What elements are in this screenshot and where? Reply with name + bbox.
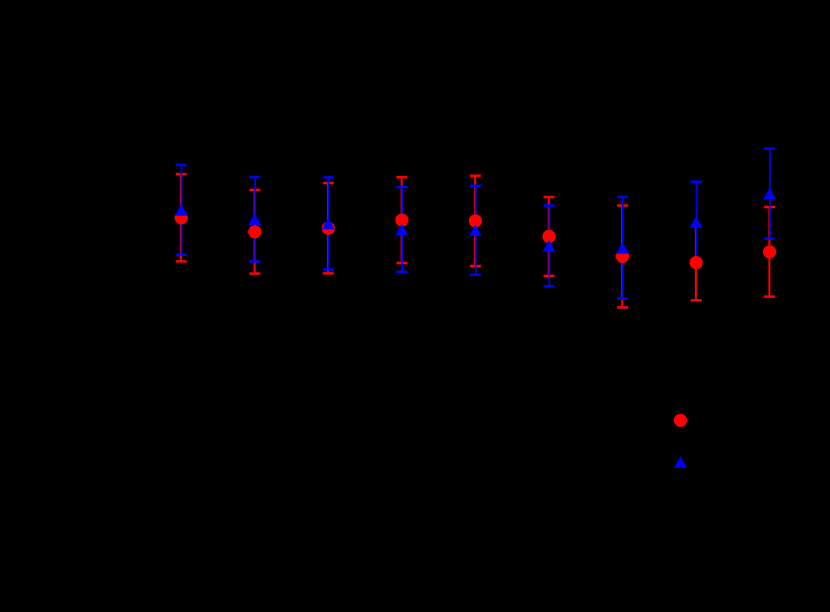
- error bar series 1 (red) group 5 bottom cap: [470, 265, 481, 268]
- error bar series 2 (blue) group 1 vertical line: [181, 165, 183, 255]
- error bar series 1 (red) group 8 bottom cap: [691, 299, 702, 302]
- error bar series 1 (red) group 9 vertical line: [768, 207, 770, 297]
- marker series 1 (red circle) group 2: [248, 225, 261, 238]
- marker series 2 (blue triangle) group 4: [396, 224, 409, 236]
- error bar series 1 (red) group 6 bottom cap: [544, 275, 555, 278]
- error bar series 2 (blue) group 5 vertical line: [475, 186, 477, 275]
- marker series 2 (blue triangle) group 5: [469, 225, 482, 237]
- error bar series 1 (red) group 8 top cap: [692, 224, 700, 227]
- error bar series 1 (red) group 5 vertical line: [474, 176, 476, 266]
- error bar series 1 (red) group 4 vertical line: [401, 177, 403, 263]
- error bar series 1 (red) group 1 vertical line: [180, 174, 182, 261]
- marker series 2 (blue triangle) group 6: [543, 240, 556, 252]
- error bar series 2 (blue) group 9 vertical line: [769, 149, 771, 239]
- error bar series 1 (red) group 5 top cap: [470, 174, 481, 177]
- error bar series 2 (blue) group 4 top cap: [396, 186, 407, 189]
- marker series 1 (red circle) group 5: [469, 214, 482, 227]
- error bar series 2 (blue) group 3 bottom cap: [323, 268, 334, 271]
- marker series 1 (red circle) group 3: [322, 222, 335, 235]
- marker series 1 (red circle) group 1: [175, 211, 188, 224]
- marker series 2 (blue triangle) group 2: [248, 213, 261, 225]
- error bar series 1 (red) group 7 vertical line: [621, 206, 623, 308]
- error bar series 2 (blue) group 9 top cap: [764, 147, 775, 150]
- error bar series 1 (red) group 6 vertical line: [548, 197, 550, 276]
- error bar series 2 (blue) group 6 top cap: [544, 204, 555, 207]
- marker series 1 (red circle) group 4: [395, 214, 408, 227]
- legend marker series 2 (blue triangle): [674, 456, 687, 468]
- marker series 1 (red circle) group 7: [616, 250, 629, 263]
- error bar series 1 (red) group 1 top cap: [176, 173, 187, 176]
- error bar series 1 (red) group 2 bottom cap: [249, 272, 260, 275]
- error bar series 2 (blue) group 2 top cap: [249, 176, 260, 179]
- error bar series 2 (blue) group 8 vertical line: [695, 182, 697, 262]
- error bar series 2 (blue) group 8 top cap: [691, 180, 702, 183]
- error bar series 2 (blue) group 3 top cap: [323, 176, 334, 179]
- error bar series 2 (blue) group 2 bottom cap: [249, 260, 260, 263]
- error bar series 2 (blue) group 6 vertical line: [548, 206, 550, 287]
- error bar series 2 (blue) group 9 bottom cap: [764, 237, 775, 240]
- error bar series 1 (red) group 3 bottom cap: [323, 272, 334, 275]
- error bar series 1 (red) group 7 bottom cap: [617, 306, 628, 309]
- error bar series 2 (blue) group 4 bottom cap: [396, 271, 407, 274]
- error bar series 2 (blue) group 2 vertical line: [254, 177, 256, 261]
- error bar series 1 (red) group 3 top cap: [323, 182, 334, 185]
- error bar series 2 (blue) group 5 top cap: [470, 185, 481, 188]
- error bar series 1 (red) group 9 bottom cap: [764, 295, 775, 298]
- error bar series 2 (blue) group 8 bottom cap: [691, 261, 702, 264]
- marker series 1 (red circle) group 8: [690, 256, 703, 269]
- error bar series 1 (red) group 6 top cap: [544, 196, 555, 199]
- error bar series 2 (blue) group 3 vertical line: [328, 177, 330, 269]
- marker series 2 (blue triangle) group 7: [616, 242, 629, 254]
- marker series 1 (red circle) group 6: [542, 230, 555, 243]
- error bar series 1 (red) group 8 vertical line: [695, 225, 697, 300]
- marker series 2 (blue triangle) group 3: [322, 218, 335, 230]
- error bar series 1 (red) group 2 top cap: [249, 189, 260, 192]
- marker series 1 (red circle) group 9: [763, 245, 776, 258]
- error bar series 2 (blue) group 7 bottom cap: [617, 297, 628, 300]
- legend marker series 1 (red circle): [674, 414, 687, 427]
- error bar series 1 (red) group 2 vertical line: [254, 190, 256, 274]
- marker series 2 (blue triangle) group 1: [175, 204, 188, 216]
- error bar series 1 (red) group 7 top cap: [617, 204, 628, 207]
- error bar series 2 (blue) group 4 vertical line: [401, 187, 403, 272]
- error bar series 1 (red) group 1 bottom cap: [176, 260, 187, 263]
- error bar series 2 (blue) group 6 bottom cap: [544, 285, 555, 288]
- error bar series 2 (blue) group 7 top cap: [617, 196, 628, 199]
- marker series 2 (blue triangle) group 8: [690, 216, 703, 228]
- error bar series 1 (red) group 3 vertical line: [327, 183, 329, 273]
- error bar series 1 (red) group 4 bottom cap: [396, 262, 407, 265]
- error bar series 1 (red) group 4 top cap: [396, 176, 407, 179]
- error bar series 1 (red) group 9 top cap: [764, 206, 775, 209]
- error bar series 2 (blue) group 7 vertical line: [622, 197, 624, 299]
- marker series 2 (blue triangle) group 9: [763, 188, 776, 200]
- error bar series 2 (blue) group 1 bottom cap: [176, 254, 187, 257]
- error bar series 2 (blue) group 1 top cap: [176, 164, 187, 167]
- error bar series 2 (blue) group 5 bottom cap: [470, 274, 481, 277]
